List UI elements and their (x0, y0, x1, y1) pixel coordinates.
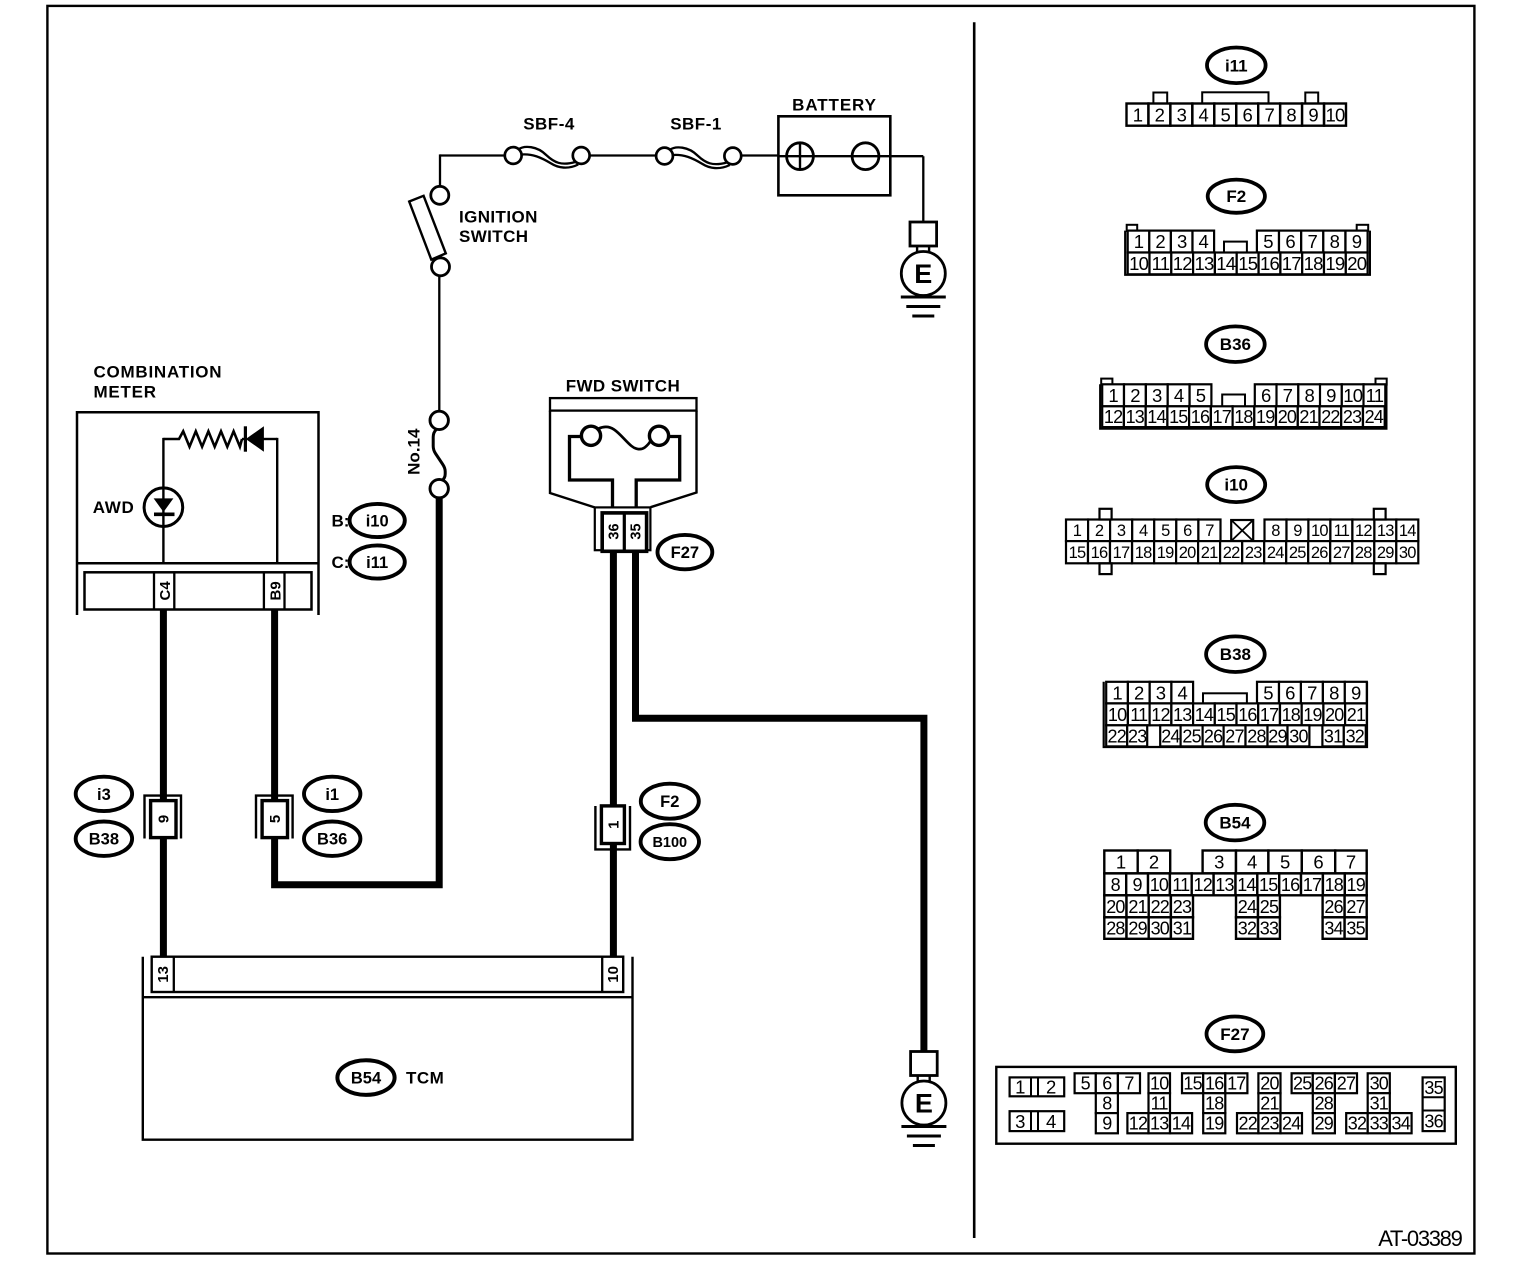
svg-text:14: 14 (1195, 705, 1214, 725)
svg-text:B38: B38 (1220, 645, 1251, 664)
svg-text:26: 26 (1204, 726, 1223, 746)
svg-text:29: 29 (1377, 544, 1394, 562)
svg-text:17: 17 (1303, 875, 1322, 895)
wire: FWD switch 36 to TCM 10 (via connector 1) (610, 551, 617, 957)
panel divider (973, 22, 976, 1238)
svg-text:6: 6 (1285, 231, 1295, 252)
FWD switch contacts (570, 437, 613, 513)
ignition switch (431, 186, 449, 204)
svg-text:B38: B38 (89, 831, 119, 849)
svg-text:17: 17 (1260, 705, 1279, 725)
svg-text:23: 23 (1245, 544, 1262, 562)
svg-text:METER: METER (94, 382, 157, 401)
svg-text:27: 27 (1346, 897, 1365, 917)
svg-text:2: 2 (1046, 1077, 1056, 1098)
svg-text:21: 21 (1201, 544, 1218, 562)
svg-text:4: 4 (1178, 682, 1188, 703)
svg-text:17: 17 (1282, 253, 1301, 274)
svg-text:10: 10 (1311, 522, 1328, 540)
connector F27 pinout (1207, 1017, 1264, 1052)
svg-text:35: 35 (629, 523, 645, 539)
fuse No.14 (433, 429, 445, 480)
svg-text:22: 22 (1321, 407, 1340, 427)
svg-text:6: 6 (1183, 522, 1192, 540)
svg-text:9: 9 (156, 815, 173, 823)
svg-text:25: 25 (1293, 1074, 1312, 1094)
node B38 (76, 822, 132, 856)
connector B36 pinout (1206, 326, 1265, 362)
svg-text:6: 6 (1285, 682, 1295, 703)
svg-text:5: 5 (1263, 682, 1273, 703)
svg-text:F2: F2 (1226, 187, 1246, 206)
svg-text:29: 29 (1268, 726, 1287, 746)
wire: battery to ground (889, 155, 923, 157)
AWD indicator lamp (144, 488, 183, 527)
svg-text:32: 32 (1348, 1114, 1367, 1134)
svg-text:F27: F27 (1220, 1025, 1249, 1044)
svg-text:11: 11 (1130, 705, 1148, 725)
svg-text:E: E (914, 259, 932, 289)
svg-text:28: 28 (1106, 919, 1125, 939)
svg-text:4: 4 (1199, 104, 1209, 125)
svg-text:19: 19 (1205, 1114, 1224, 1134)
svg-text:B9: B9 (267, 581, 284, 600)
svg-text:7: 7 (1307, 682, 1317, 703)
svg-text:12: 12 (1151, 705, 1170, 725)
svg-text:TCM: TCM (406, 1069, 444, 1088)
i10 keyway tabs (1100, 509, 1112, 520)
svg-text:8: 8 (1304, 385, 1314, 406)
svg-text:16: 16 (1091, 544, 1108, 562)
svg-text:6: 6 (1242, 104, 1252, 125)
wire: fuse No.14 to combination meter B9 (via connector 5) (275, 497, 440, 885)
svg-text:9: 9 (1102, 1114, 1112, 1134)
svg-text:B36: B36 (1220, 335, 1251, 354)
svg-text:19: 19 (1303, 705, 1322, 725)
svg-text:14: 14 (1172, 1114, 1191, 1134)
svg-text:17: 17 (1227, 1074, 1246, 1094)
TCM connector strip (pins 13, 10) (152, 957, 624, 992)
svg-text:14: 14 (1237, 875, 1256, 895)
svg-text:25: 25 (1260, 897, 1279, 917)
svg-text:29: 29 (1128, 919, 1147, 939)
svg-text:9: 9 (1326, 385, 1336, 406)
svg-text:4: 4 (1174, 385, 1184, 406)
svg-text:6: 6 (1102, 1074, 1112, 1094)
svg-text:11: 11 (1172, 875, 1190, 895)
svg-text:9: 9 (1308, 104, 1318, 125)
svg-text:7: 7 (1124, 1074, 1134, 1094)
svg-text:32: 32 (1346, 726, 1365, 746)
svg-text:9: 9 (1352, 231, 1362, 252)
node F27 (658, 535, 713, 569)
svg-text:22: 22 (1151, 897, 1170, 917)
svg-text:FWD SWITCH: FWD SWITCH (566, 377, 680, 396)
svg-text:4: 4 (1199, 231, 1209, 252)
svg-text:3: 3 (1214, 852, 1224, 873)
svg-text:24: 24 (1267, 544, 1284, 562)
svg-text:B54: B54 (351, 1070, 382, 1088)
svg-text:18: 18 (1304, 253, 1323, 274)
svg-text:1: 1 (1134, 231, 1144, 252)
svg-text:8: 8 (1111, 875, 1121, 895)
svg-text:9: 9 (1351, 682, 1361, 703)
svg-text:13: 13 (1195, 253, 1214, 274)
svg-text:BATTERY: BATTERY (792, 95, 877, 114)
svg-text:35: 35 (1346, 919, 1365, 939)
svg-text:21: 21 (1299, 407, 1318, 427)
svg-text:15: 15 (1169, 407, 1188, 427)
svg-text:12: 12 (1193, 875, 1212, 895)
connector F2 pinout (1208, 180, 1265, 213)
ground (FWD switch circuit) (911, 1052, 938, 1076)
svg-text:1: 1 (1015, 1077, 1025, 1098)
wire (meter internal) (162, 438, 164, 563)
svg-text:i10: i10 (1224, 476, 1248, 495)
TCM box (143, 957, 633, 1140)
svg-text:30: 30 (1399, 544, 1416, 562)
svg-text:26: 26 (1315, 1074, 1334, 1094)
svg-text:35: 35 (1424, 1078, 1443, 1098)
svg-text:7: 7 (1283, 385, 1293, 406)
svg-text:31: 31 (1370, 1094, 1389, 1114)
svg-text:8: 8 (1329, 682, 1339, 703)
svg-text:23: 23 (1343, 407, 1362, 427)
svg-text:26: 26 (1311, 544, 1328, 562)
svg-text:2: 2 (1149, 852, 1159, 873)
svg-text:15: 15 (1069, 544, 1086, 562)
svg-text:27: 27 (1337, 1074, 1356, 1094)
svg-text:20: 20 (1260, 1074, 1279, 1094)
svg-text:18: 18 (1325, 875, 1344, 895)
svg-text:17: 17 (1212, 407, 1231, 427)
fuse SBF-1 (670, 147, 727, 164)
svg-text:19: 19 (1325, 253, 1344, 274)
svg-text:9: 9 (1132, 875, 1142, 895)
svg-text:3: 3 (1117, 522, 1126, 540)
svg-text:5: 5 (1263, 231, 1273, 252)
svg-text:13: 13 (155, 966, 172, 983)
svg-text:23: 23 (1173, 897, 1192, 917)
svg-text:10: 10 (1343, 385, 1362, 406)
svg-text:11: 11 (1366, 385, 1384, 406)
svg-text:11: 11 (1152, 253, 1170, 274)
svg-text:B100: B100 (652, 835, 687, 851)
svg-text:9: 9 (1293, 522, 1302, 540)
svg-text:14: 14 (1399, 522, 1416, 540)
connector B54 pinout (1206, 805, 1265, 841)
svg-text:34: 34 (1324, 919, 1343, 939)
svg-text:8: 8 (1271, 522, 1280, 540)
svg-text:18: 18 (1234, 407, 1253, 427)
svg-text:10: 10 (1150, 875, 1169, 895)
svg-text:31: 31 (1173, 919, 1192, 939)
svg-text:14: 14 (1147, 407, 1166, 427)
svg-text:3: 3 (1177, 231, 1187, 252)
node i1 (304, 777, 360, 811)
svg-text:16: 16 (1238, 705, 1257, 725)
svg-text:20: 20 (1106, 897, 1125, 917)
svg-text:13: 13 (1150, 1114, 1169, 1134)
node i3 (76, 777, 132, 811)
meter connector strip (C4 / B9) (85, 572, 312, 609)
svg-text:15: 15 (1259, 875, 1278, 895)
svg-text:26: 26 (1324, 897, 1343, 917)
svg-text:30: 30 (1289, 726, 1308, 746)
svg-text:31: 31 (1324, 726, 1343, 746)
svg-text:10: 10 (1108, 705, 1127, 725)
connector i11 pinout (1207, 48, 1266, 84)
svg-text:18: 18 (1205, 1094, 1224, 1114)
svg-text:i10: i10 (366, 512, 389, 530)
svg-text:24: 24 (1282, 1114, 1301, 1134)
connector i10 pinout (1207, 467, 1265, 502)
svg-text:SBF-4: SBF-4 (523, 115, 575, 134)
svg-text:AT-03389: AT-03389 (1378, 1226, 1462, 1251)
wire: FWD switch 35 to ground (636, 551, 924, 1052)
svg-text:B:: B: (332, 511, 350, 530)
svg-text:E: E (915, 1089, 933, 1119)
svg-text:5: 5 (267, 815, 284, 823)
svg-text:20: 20 (1325, 705, 1344, 725)
svg-text:12: 12 (1173, 253, 1192, 274)
svg-text:15: 15 (1183, 1074, 1202, 1094)
FWD switch connector (pins 36, 35) (595, 507, 651, 550)
svg-text:11: 11 (1151, 1094, 1169, 1114)
svg-text:3: 3 (1156, 682, 1166, 703)
svg-text:10: 10 (1150, 1074, 1169, 1094)
svg-text:30: 30 (1370, 1074, 1389, 1094)
svg-text:6: 6 (1261, 385, 1271, 406)
svg-text:IGNITION: IGNITION (459, 207, 538, 226)
svg-text:3: 3 (1177, 104, 1187, 125)
resistor (meter) (163, 431, 242, 446)
keyway (X) (1231, 520, 1253, 541)
node B100 (641, 824, 699, 859)
svg-text:COMBINATION: COMBINATION (94, 362, 223, 381)
svg-text:13: 13 (1126, 407, 1145, 427)
svg-text:6: 6 (1313, 852, 1323, 873)
svg-text:1: 1 (1073, 522, 1082, 540)
svg-text:AWD: AWD (93, 498, 135, 517)
wire: battery feed to ignition switch (440, 154, 505, 156)
svg-text:i3: i3 (97, 786, 111, 804)
svg-text:1: 1 (1116, 852, 1126, 873)
svg-text:1: 1 (605, 821, 622, 829)
svg-text:8: 8 (1102, 1094, 1112, 1114)
svg-text:4: 4 (1046, 1111, 1056, 1132)
svg-text:2: 2 (1155, 104, 1165, 125)
svg-text:5: 5 (1081, 1074, 1091, 1094)
svg-text:24: 24 (1365, 407, 1384, 427)
wire: ignition switch to fuse No.14 (438, 276, 440, 412)
svg-text:1: 1 (1133, 104, 1143, 125)
svg-text:12: 12 (1355, 522, 1372, 540)
svg-text:1: 1 (1112, 682, 1122, 703)
svg-text:11: 11 (1334, 522, 1350, 540)
svg-text:B36: B36 (317, 831, 347, 849)
svg-text:30: 30 (1151, 919, 1170, 939)
node B36 (304, 822, 360, 856)
svg-text:28: 28 (1247, 726, 1266, 746)
svg-text:17: 17 (1113, 544, 1130, 562)
svg-text:C:: C: (332, 553, 350, 572)
svg-text:27: 27 (1333, 544, 1350, 562)
svg-text:1: 1 (1108, 385, 1118, 406)
node B54 (337, 1060, 394, 1095)
svg-text:15: 15 (1216, 705, 1235, 725)
svg-text:F2: F2 (660, 793, 679, 811)
svg-text:C4: C4 (157, 581, 174, 601)
svg-text:i11: i11 (1225, 56, 1248, 75)
svg-text:36: 36 (1424, 1111, 1443, 1131)
ground (battery) (910, 222, 937, 246)
svg-text:5: 5 (1196, 385, 1206, 406)
svg-text:B54: B54 (1219, 814, 1251, 833)
node F2 (641, 784, 699, 819)
svg-text:16: 16 (1191, 407, 1210, 427)
svg-text:SBF-1: SBF-1 (670, 115, 722, 134)
svg-text:27: 27 (1225, 726, 1244, 746)
connector 1 (F2 / B100) (595, 806, 630, 849)
svg-text:21: 21 (1128, 897, 1147, 917)
battery (778, 116, 890, 195)
svg-text:19: 19 (1157, 544, 1174, 562)
svg-text:22: 22 (1223, 544, 1240, 562)
connector 9 (i3 / B38) (145, 796, 182, 839)
svg-text:14: 14 (1216, 253, 1235, 274)
svg-text:21: 21 (1347, 705, 1366, 725)
svg-text:20: 20 (1278, 407, 1297, 427)
svg-text:10: 10 (1326, 104, 1345, 125)
svg-text:23: 23 (1128, 726, 1147, 746)
svg-text:12: 12 (1104, 407, 1123, 427)
svg-text:21: 21 (1260, 1094, 1279, 1114)
svg-text:24: 24 (1238, 897, 1257, 917)
svg-text:No.14: No.14 (405, 428, 424, 475)
svg-text:2: 2 (1134, 682, 1144, 703)
connector 5 (i1 / B36) (256, 796, 293, 839)
svg-text:3: 3 (1015, 1111, 1025, 1132)
svg-text:10: 10 (605, 966, 622, 983)
svg-text:23: 23 (1260, 1114, 1279, 1134)
svg-text:i1: i1 (325, 786, 339, 804)
svg-text:19: 19 (1346, 875, 1365, 895)
svg-text:20: 20 (1347, 253, 1366, 274)
svg-text:16: 16 (1260, 253, 1279, 274)
svg-text:8: 8 (1286, 104, 1296, 125)
svg-text:33: 33 (1260, 919, 1279, 939)
svg-text:7: 7 (1205, 522, 1214, 540)
svg-text:18: 18 (1135, 544, 1152, 562)
svg-text:13: 13 (1215, 875, 1234, 895)
svg-text:2: 2 (1130, 385, 1140, 406)
svg-text:7: 7 (1264, 104, 1274, 125)
svg-text:SWITCH: SWITCH (459, 227, 528, 246)
svg-text:7: 7 (1308, 231, 1318, 252)
svg-text:25: 25 (1289, 544, 1306, 562)
connector B38 pinout (1206, 636, 1265, 672)
svg-text:7: 7 (1346, 852, 1356, 873)
svg-text:8: 8 (1330, 231, 1340, 252)
svg-text:2: 2 (1095, 522, 1104, 540)
svg-text:13: 13 (1173, 705, 1192, 725)
svg-text:29: 29 (1315, 1114, 1334, 1134)
svg-text:15: 15 (1238, 253, 1257, 274)
svg-text:12: 12 (1129, 1114, 1148, 1134)
svg-text:2: 2 (1155, 231, 1165, 252)
svg-text:13: 13 (1377, 522, 1394, 540)
svg-text:20: 20 (1179, 544, 1196, 562)
svg-text:32: 32 (1238, 919, 1257, 939)
svg-text:i11: i11 (366, 554, 388, 572)
svg-text:5: 5 (1221, 104, 1231, 125)
svg-text:28: 28 (1355, 544, 1372, 562)
svg-text:16: 16 (1281, 875, 1300, 895)
svg-text:33: 33 (1370, 1114, 1389, 1134)
svg-text:36: 36 (606, 523, 622, 539)
svg-text:22: 22 (1107, 726, 1126, 746)
svg-text:18: 18 (1282, 705, 1301, 725)
diode (meter) (244, 426, 247, 451)
svg-text:28: 28 (1315, 1094, 1334, 1114)
svg-text:4: 4 (1139, 522, 1148, 540)
svg-text:4: 4 (1247, 852, 1257, 873)
wire: combination meter C4 to TCM 13 (via connector 9) (160, 610, 167, 957)
svg-text:3: 3 (1152, 385, 1162, 406)
svg-text:5: 5 (1280, 852, 1290, 873)
svg-text:22: 22 (1238, 1114, 1257, 1134)
svg-text:19: 19 (1256, 407, 1275, 427)
svg-text:10: 10 (1129, 253, 1148, 274)
svg-text:34: 34 (1391, 1114, 1410, 1134)
svg-text:5: 5 (1161, 522, 1170, 540)
fuse SBF-4 (518, 147, 575, 164)
svg-text:25: 25 (1182, 726, 1201, 746)
svg-text:24: 24 (1161, 726, 1180, 746)
svg-text:16: 16 (1205, 1074, 1224, 1094)
svg-text:F27: F27 (671, 544, 699, 562)
